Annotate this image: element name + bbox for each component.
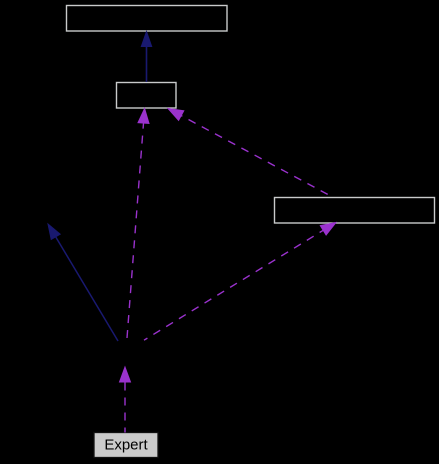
svg-text:Expert: Expert xyxy=(104,437,148,454)
